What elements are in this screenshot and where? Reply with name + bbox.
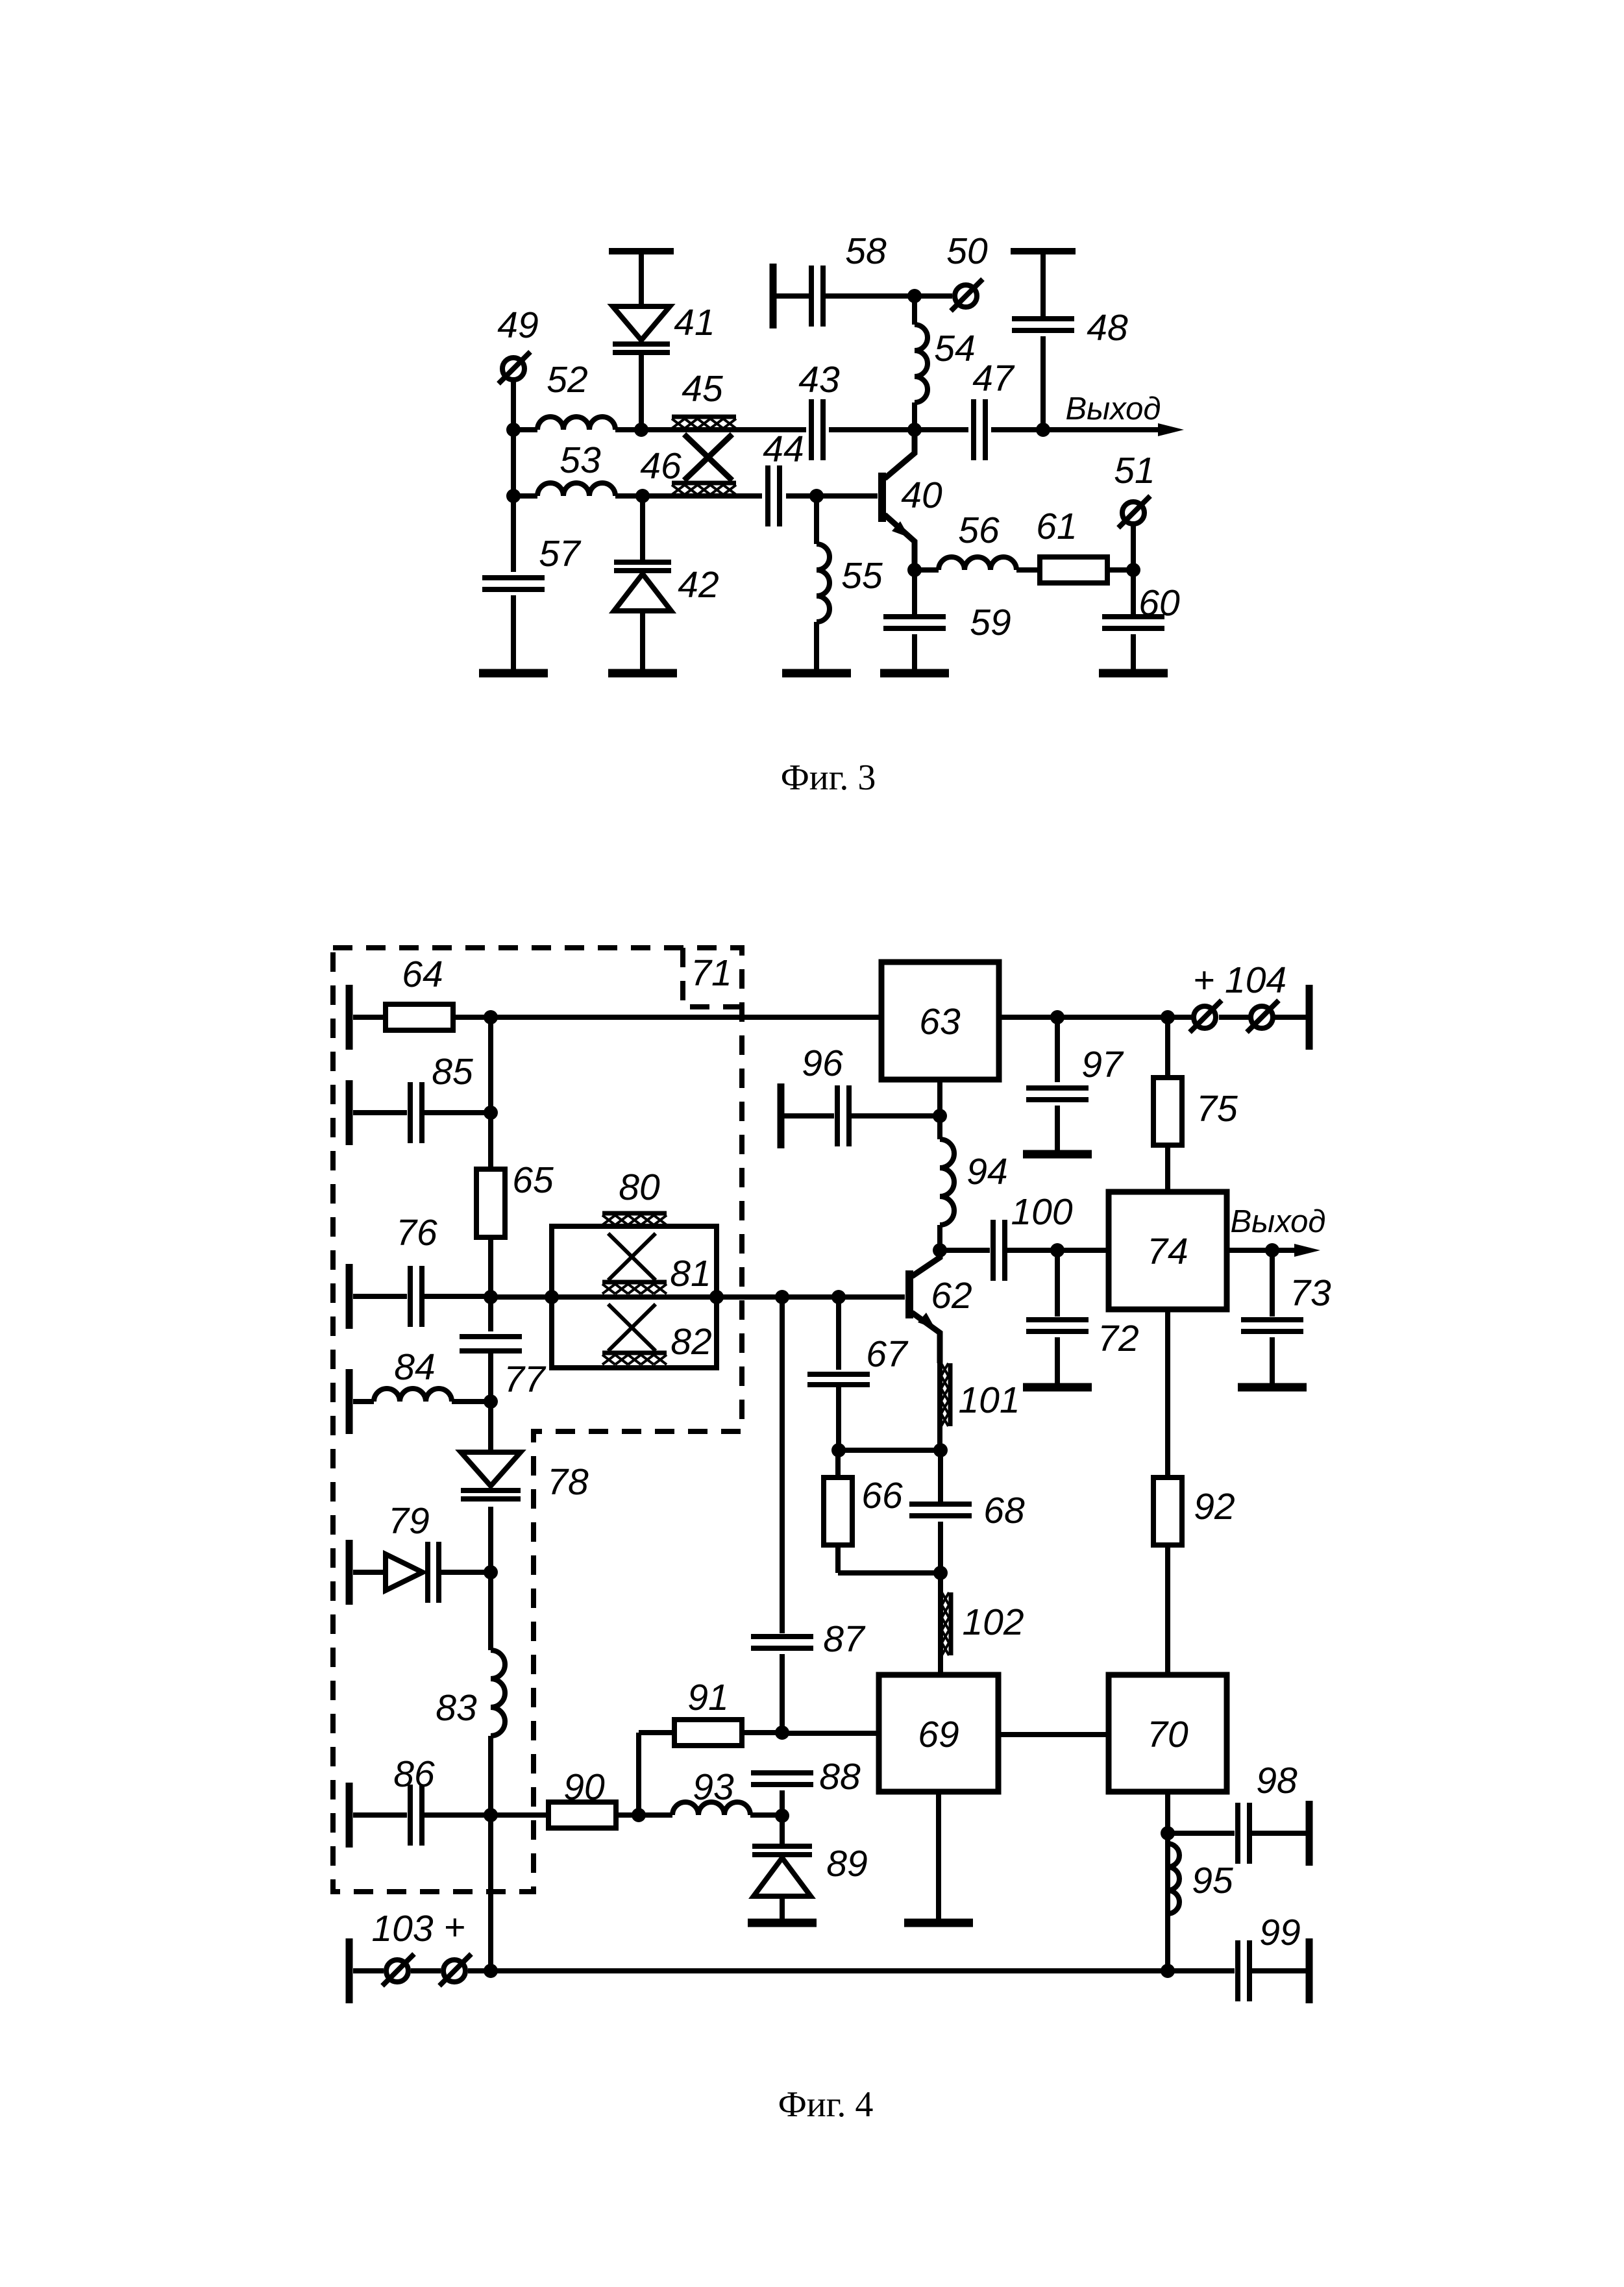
capacitor 77 [460, 1337, 547, 1402]
svg-text:45: 45 [682, 368, 723, 410]
transistor 40 [882, 430, 942, 570]
strip line 81 [602, 1253, 711, 1294]
inductor 54 [915, 296, 976, 430]
svg-text:67: 67 [866, 1333, 909, 1375]
svg-text:100: 100 [1011, 1191, 1072, 1233]
microstrip 102 [941, 1573, 1024, 1675]
node 73 top [1265, 1243, 1279, 1257]
svg-text:91: 91 [687, 1677, 728, 1718]
node 72 top [1050, 1243, 1064, 1257]
svg-text:56: 56 [958, 510, 1000, 551]
terminal bar 85 [349, 1080, 407, 1145]
node 84-A [484, 1394, 498, 1409]
svg-text:46: 46 [640, 445, 682, 487]
svg-text:82: 82 [671, 1321, 711, 1363]
capacitor 97 [1026, 1017, 1124, 1150]
dashed label box 71 [683, 948, 742, 1007]
node resonator left [545, 1290, 559, 1304]
svg-text:103: 103 [371, 1908, 433, 1949]
svg-text:75: 75 [1196, 1088, 1238, 1130]
terminal bar 76 [349, 1264, 407, 1329]
wire 67-101 [839, 1448, 941, 1453]
svg-text:78: 78 [547, 1461, 589, 1503]
wire 63-94 [937, 1080, 942, 1116]
svg-text:59: 59 [970, 602, 1011, 643]
svg-text:96: 96 [802, 1043, 843, 1084]
svg-text:48: 48 [1087, 307, 1128, 349]
wire 91-69 [782, 1731, 879, 1736]
svg-text:64: 64 [402, 954, 443, 995]
svg-text:41: 41 [674, 302, 715, 343]
svg-text:40: 40 [901, 475, 942, 516]
svg-text:87: 87 [823, 1618, 866, 1660]
node emitter 40 [907, 563, 922, 577]
node diode 41 [634, 423, 648, 437]
resistor 90 [491, 1766, 672, 1828]
capacitor 44 [763, 428, 804, 526]
node 86-A [484, 1808, 498, 1822]
wire bottom line [491, 1968, 1168, 1973]
node 101 bottom [933, 1443, 948, 1457]
resistor 65 [476, 1159, 554, 1237]
terminal bar 86 [349, 1783, 407, 1848]
svg-text:86: 86 [393, 1753, 435, 1795]
svg-text:80: 80 [619, 1167, 660, 1208]
ground 69 [904, 1919, 973, 1927]
terminal 103 [349, 1907, 491, 2003]
svg-text:93: 93 [693, 1766, 734, 1808]
node 48-bus [1036, 423, 1050, 437]
svg-text:77: 77 [504, 1359, 547, 1400]
ground 72 [1023, 1383, 1092, 1392]
node 76-A [484, 1290, 498, 1304]
node 87 line [775, 1290, 789, 1304]
capacitor 86 [393, 1753, 491, 1846]
block 63 [881, 962, 999, 1080]
svg-text:66: 66 [861, 1475, 903, 1516]
svg-text:+ 104: + 104 [1193, 959, 1286, 1001]
node 49-second [506, 489, 521, 503]
node 75 top [1161, 1010, 1175, 1024]
svg-text:44: 44 [763, 428, 804, 470]
svg-text:50: 50 [946, 230, 988, 272]
svg-text:92: 92 [1194, 1486, 1235, 1527]
svg-text:73: 73 [1290, 1272, 1331, 1314]
resistor 66 [824, 1450, 941, 1573]
svg-text:52: 52 [547, 359, 587, 401]
strip line 82 [602, 1321, 712, 1365]
wire resonator line [491, 1294, 905, 1300]
ground 55 [782, 669, 851, 678]
capacitor 67 [807, 1297, 909, 1450]
capacitor 96 [781, 1043, 940, 1148]
svg-text:70: 70 [1147, 1714, 1188, 1755]
capacitor 58 [773, 230, 952, 328]
capacitor 60 [1102, 570, 1180, 673]
varactor diode 42 [614, 496, 719, 673]
svg-text:83: 83 [436, 1687, 477, 1729]
strip line 45 [672, 368, 736, 428]
caption Fig.4 [778, 2084, 874, 2125]
node collector 62 [933, 1243, 947, 1257]
node 61-51 [1126, 563, 1140, 577]
svg-text:98: 98 [1256, 1760, 1298, 1801]
svg-text:Выход: Выход [1230, 1204, 1325, 1239]
terminal 51 [1114, 450, 1155, 570]
wire top line fig4 [491, 1015, 881, 1020]
capacitor 48 [1011, 251, 1128, 430]
capacitor 87 [751, 1297, 866, 1733]
capacitor 68 [909, 1450, 1025, 1573]
node 54-bus [907, 423, 922, 437]
capacitor 85 [410, 1051, 491, 1143]
wire 70 bottom [1165, 1792, 1170, 1971]
ground 97 [1023, 1150, 1092, 1159]
capacitor 100 [940, 1191, 1109, 1281]
ground 89 [748, 1919, 817, 1927]
transistor 62 [909, 1250, 972, 1363]
svg-text:55: 55 [841, 555, 883, 597]
svg-text:+: + [443, 1907, 465, 1948]
svg-text:51: 51 [1114, 450, 1155, 491]
inductor 53 [537, 439, 615, 496]
svg-text:63: 63 [919, 1001, 961, 1043]
inductor 83 [436, 1572, 505, 1815]
ground 60 [1099, 669, 1168, 678]
coupling cross 46 [640, 434, 732, 487]
terminal bar 84 [349, 1369, 374, 1434]
wire top bus line [513, 427, 1043, 432]
node base junction [809, 489, 824, 503]
terminal bar 79 [349, 1540, 386, 1605]
strip line 80 [602, 1167, 667, 1225]
svg-text:49: 49 [497, 304, 538, 346]
node 58-54 [907, 289, 922, 303]
svg-text:71: 71 [691, 952, 732, 994]
varactor diode 41 [609, 251, 715, 430]
inductor 95 [1168, 1844, 1233, 1914]
node 79-A [484, 1565, 498, 1579]
svg-text:61: 61 [1036, 506, 1077, 547]
inductor 55 [817, 496, 883, 673]
svg-text:95: 95 [1192, 1860, 1233, 1901]
ground 73 [1238, 1383, 1307, 1392]
wire 69-70 [998, 1732, 1109, 1737]
wire bias column upper [488, 1017, 493, 1169]
svg-text:72: 72 [1098, 1318, 1138, 1359]
ground lead 69 [936, 1792, 941, 1919]
block 70 [1109, 1675, 1227, 1792]
node 97 top [1050, 1010, 1064, 1024]
svg-text:42: 42 [678, 564, 719, 606]
caption Fig.3 [781, 758, 876, 798]
varactor diode 78 [461, 1402, 589, 1572]
svg-text:101: 101 [958, 1379, 1020, 1421]
node 66 top [831, 1443, 846, 1457]
svg-text:85: 85 [432, 1051, 473, 1093]
svg-text:76: 76 [396, 1212, 437, 1254]
capacitor 99 [1168, 1912, 1309, 2003]
node 49-top [506, 423, 521, 437]
wire top right [999, 1015, 1194, 1020]
node 90-91 [632, 1808, 646, 1822]
dashed module boundary 71 [333, 948, 742, 1892]
wire bias column lower [488, 1815, 493, 1971]
capacitor 76 [396, 1212, 491, 1327]
node 67 line [831, 1290, 846, 1304]
resistor 61 [1036, 506, 1133, 583]
svg-text:99: 99 [1259, 1912, 1300, 1953]
svg-text:102: 102 [962, 1601, 1024, 1643]
inductor 56 [915, 510, 1040, 570]
svg-text:60: 60 [1138, 582, 1180, 624]
node 96-94 [933, 1109, 947, 1123]
block 69 [879, 1675, 998, 1792]
capacitor 47 [972, 358, 1015, 460]
inductor 52 [537, 359, 615, 430]
resistor 92 [1153, 1309, 1235, 1675]
svg-text:Фиг. 3: Фиг. 3 [781, 758, 876, 798]
svg-text:47: 47 [972, 358, 1015, 399]
varactor diode 89 [752, 1816, 868, 1919]
coupling cross 80-81 [608, 1233, 656, 1280]
wire bias column mid [488, 1237, 493, 1331]
svg-text:Выход: Выход [1065, 391, 1161, 426]
node top-A [484, 1010, 498, 1024]
resistor 75 [1153, 1017, 1238, 1192]
diode 79 [386, 1500, 491, 1603]
capacitor 98 [1168, 1760, 1309, 1866]
terminal 50 [946, 230, 988, 311]
inductor 84 [374, 1346, 491, 1402]
svg-text:65: 65 [512, 1159, 554, 1201]
ground 42 [608, 669, 677, 678]
node 103 [484, 1964, 498, 1978]
svg-text:88: 88 [819, 1756, 861, 1798]
node 98 [1161, 1826, 1175, 1840]
resistor 64 [386, 954, 491, 1030]
resonator box [552, 1226, 717, 1368]
terminal 49 [497, 304, 538, 430]
svg-text:79: 79 [388, 1500, 429, 1542]
svg-text:74: 74 [1147, 1231, 1188, 1272]
node 95 bottom [1161, 1964, 1175, 1978]
ground 59 [880, 669, 949, 678]
inductor 93 [672, 1766, 782, 1815]
node diode 42 [635, 489, 650, 503]
wire second bus line [513, 430, 878, 496]
svg-text:90: 90 [563, 1766, 605, 1808]
node resonator right [709, 1290, 724, 1304]
svg-text:Фиг. 4: Фиг. 4 [778, 2084, 874, 2125]
node 68 bottom [933, 1566, 948, 1580]
output arrow fig4 [1227, 1204, 1326, 1257]
svg-text:97: 97 [1081, 1044, 1124, 1085]
svg-text:43: 43 [798, 359, 840, 401]
resistor 91 [639, 1677, 782, 1815]
capacitor 43 [798, 359, 840, 460]
block 74 [1109, 1192, 1227, 1309]
node 85-A [484, 1106, 498, 1120]
microstrip 101 [940, 1361, 1020, 1450]
svg-text:84: 84 [394, 1346, 435, 1388]
capacitor 57 [482, 496, 582, 673]
svg-text:89: 89 [826, 1843, 867, 1885]
capacitor 88 [751, 1756, 861, 1816]
terminal +104 [1190, 959, 1309, 1050]
svg-text:58: 58 [845, 230, 887, 272]
svg-text:62: 62 [931, 1275, 972, 1317]
node 88-93 [775, 1809, 789, 1823]
node 87-91 [775, 1725, 789, 1740]
svg-text:68: 68 [983, 1490, 1025, 1531]
capacitor 73 [1241, 1250, 1331, 1383]
strip line 46 lower [672, 483, 736, 495]
capacitor 72 [1026, 1250, 1139, 1383]
svg-text:53: 53 [560, 439, 601, 481]
svg-text:54: 54 [934, 328, 975, 369]
svg-text:81: 81 [670, 1253, 711, 1294]
svg-text:94: 94 [966, 1151, 1007, 1193]
terminal bar 64 [349, 985, 386, 1050]
svg-text:69: 69 [918, 1714, 959, 1755]
coupling cross 81-82 [608, 1304, 656, 1351]
svg-text:57: 57 [539, 533, 582, 575]
capacitor 59 [883, 570, 1011, 673]
ground 57 [479, 669, 548, 678]
inductor 94 [940, 1116, 1008, 1250]
output arrow fig3 [1043, 391, 1184, 436]
